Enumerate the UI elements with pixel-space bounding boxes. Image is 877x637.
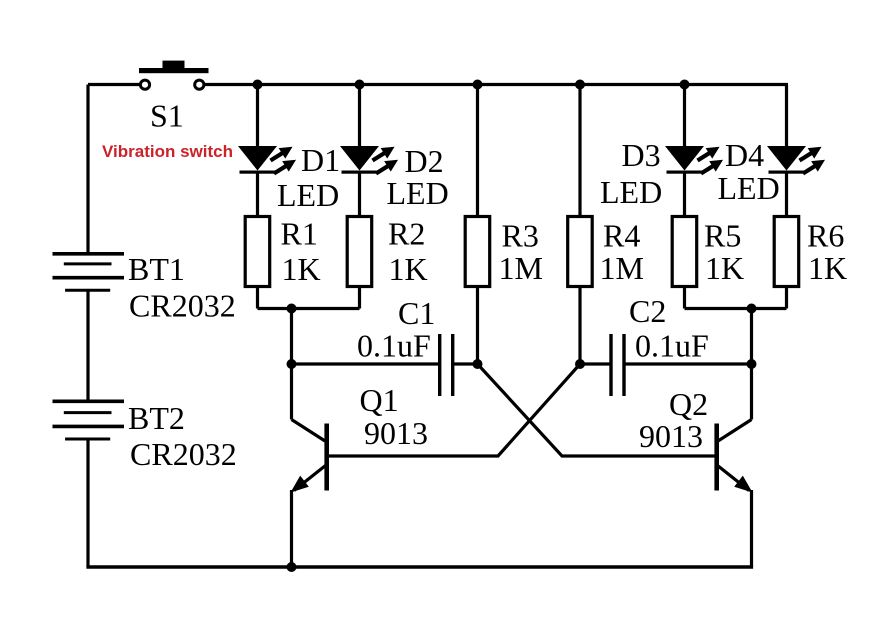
svg-text:1K: 1K	[389, 251, 428, 287]
svg-text:1K: 1K	[282, 251, 321, 287]
svg-text:D2: D2	[405, 143, 444, 179]
svg-text:1M: 1M	[600, 250, 644, 286]
svg-text:1M: 1M	[499, 250, 543, 286]
svg-text:R5: R5	[704, 218, 741, 254]
svg-text:Vibration switch: Vibration switch	[102, 142, 233, 161]
svg-text:0.1uF: 0.1uF	[357, 328, 431, 364]
svg-text:BT2: BT2	[128, 400, 185, 436]
svg-text:1K: 1K	[705, 250, 744, 286]
svg-text:D4: D4	[725, 137, 764, 173]
svg-text:1K: 1K	[808, 250, 847, 286]
svg-text:LED: LED	[387, 175, 449, 211]
svg-text:R1: R1	[281, 216, 318, 252]
svg-text:LED: LED	[718, 170, 780, 206]
svg-text:R4: R4	[603, 218, 640, 254]
svg-text:C1: C1	[398, 295, 435, 331]
svg-text:R2: R2	[388, 216, 425, 252]
svg-text:LED: LED	[277, 177, 339, 213]
svg-text:LED: LED	[600, 174, 662, 210]
svg-text:S1: S1	[150, 98, 184, 134]
svg-text:CR2032: CR2032	[130, 436, 237, 472]
svg-text:D3: D3	[622, 137, 661, 173]
svg-text:R6: R6	[807, 218, 844, 254]
svg-text:CR2032: CR2032	[129, 288, 236, 324]
svg-text:Q1: Q1	[360, 382, 399, 418]
svg-text:9013: 9013	[364, 415, 428, 451]
svg-text:C2: C2	[629, 293, 666, 329]
svg-text:BT1: BT1	[128, 251, 185, 287]
svg-text:0.1uF: 0.1uF	[635, 328, 709, 364]
svg-text:Q2: Q2	[669, 386, 708, 422]
svg-text:R3: R3	[502, 218, 539, 254]
svg-text:9013: 9013	[639, 418, 703, 454]
svg-text:D1: D1	[301, 142, 340, 178]
